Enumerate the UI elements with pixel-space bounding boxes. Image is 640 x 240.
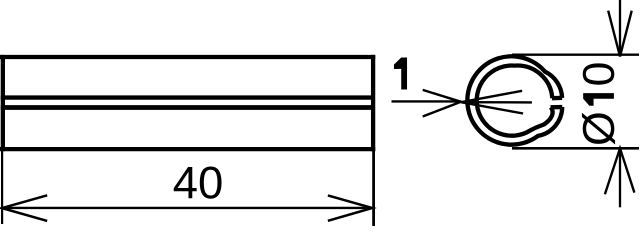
slot upper edge line (side view)	[1, 95, 375, 99]
upper slot end cap (end view)	[552, 96, 562, 101]
left extension line	[1, 151, 3, 224]
dimension text 40	[174, 167, 222, 199]
leader right horizontal tail	[461, 101, 532, 104]
left arrowhead of 40 dimension	[2, 195, 47, 221]
pin body bottom edge (side view)	[0, 147, 375, 151]
pin body left edge (side view)	[1, 55, 5, 151]
bottom tangent extension line for diameter	[512, 147, 639, 150]
leader right arrowhead pointing left (with tail lines)	[461, 91, 523, 114]
outer arc of slotted ring (end view)	[467, 56, 562, 144]
lower arrowhead pointing up	[605, 148, 635, 194]
right extension line	[372, 151, 375, 226]
diameter text Ø10 (rotated)	[582, 63, 615, 144]
pin body top edge (side view)	[0, 55, 375, 59]
slot width text 1	[394, 58, 407, 90]
top tangent extension line for diameter	[512, 53, 639, 55]
pin body right edge (side view)	[371, 55, 375, 151]
leader left arrowhead pointing right	[423, 90, 461, 117]
inner arc of slotted ring (end view)	[477, 65, 553, 135]
vertical dimension line lower segment	[619, 148, 621, 207]
lower slot end cap (end view)	[551, 105, 563, 109]
slot lower edge line (side view)	[1, 105, 375, 110]
dimension line 40	[2, 207, 372, 209]
vertical dimension line upper segment	[619, 0, 621, 57]
upper arrowhead pointing down	[608, 11, 632, 57]
leader line from 1	[392, 100, 462, 102]
right arrowhead of 40 dimension	[328, 195, 372, 220]
